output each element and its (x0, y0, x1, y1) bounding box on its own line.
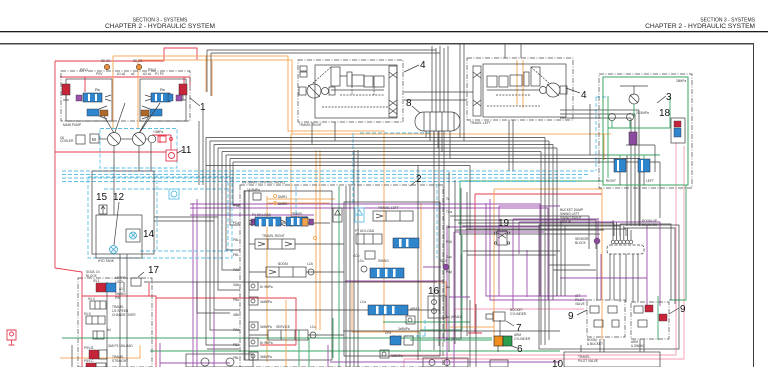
travel right motor (299, 84, 335, 98)
bottom center small block (186, 354, 253, 367)
label 3 (657, 92, 672, 103)
wire black bottom center verticals (470, 300, 581, 367)
svg-text:& SWING: & SWING (631, 344, 645, 348)
solenoid PSV-C (84, 355, 128, 367)
svg-text:SE-9: SE-9 (440, 259, 447, 263)
svg-text:LEFT: LEFT (646, 179, 654, 183)
svg-text:PB2: PB2 (233, 343, 239, 347)
svg-text:14: 14 (143, 229, 155, 240)
svg-text:9: 9 (568, 311, 574, 322)
wire green MCV inlet (460, 181, 603, 235)
svg-text:PBs: PBs (233, 298, 239, 302)
svg-text:BOOM DN: BOOM DN (642, 223, 658, 227)
wire black band horizontals (206, 138, 660, 166)
svg-text:19: 19 (498, 218, 510, 229)
wire black pump to tank drops (114, 110, 218, 221)
svg-text:SV.1: SV.1 (93, 279, 100, 283)
svg-text:4: 4 (420, 60, 426, 71)
wire black remote top horizontals (450, 216, 626, 249)
header rule 1 (0, 31, 768, 32)
valve 11 pilot relief (166, 145, 192, 161)
swash links (104, 103, 160, 133)
svg-text:PSV1: PSV1 (80, 68, 88, 72)
pilot relief pair (609, 111, 649, 121)
svg-text:A4: A4 (107, 328, 111, 332)
check relief right a (398, 316, 415, 331)
travel right brake ports (300, 66, 307, 77)
svg-text:3: 3 (666, 92, 672, 103)
svg-text:6: 6 (517, 344, 523, 355)
svg-text:A1 a2: A1 a2 (117, 72, 126, 76)
svg-text:CPa: CPa (385, 331, 391, 335)
wire orange right edge vertical (494, 189, 602, 340)
wire black MCV inner frames (244, 191, 440, 360)
svg-text:PSV-C: PSV-C (84, 359, 94, 363)
svg-text:PCb: PCb (446, 240, 452, 244)
check relief column 3 (249, 322, 272, 330)
wire cyan pilot to manifold (296, 97, 608, 336)
svg-text:VALVE: VALVE (575, 302, 585, 306)
svg-text:a2: a2 (131, 72, 135, 76)
pump circle P2 (121, 133, 146, 146)
svg-text:MV (MAIN CONTROL VALVE): MV (MAIN CONTROL VALVE) (242, 181, 285, 185)
label 4 left (566, 88, 587, 101)
wire black MCV row links (249, 223, 440, 335)
wire black MCV right bundle (418, 165, 467, 360)
wire black remote inner links (549, 265, 596, 270)
orange DMR labels (273, 194, 276, 197)
svg-text:PBL: PBL (233, 356, 239, 360)
wire red pump supply left (55, 48, 197, 367)
svg-text:15: 15 (96, 192, 108, 203)
bottom small valve box (423, 358, 468, 367)
svg-text:DMR2: DMR2 (278, 202, 287, 206)
travel motor left block (467, 58, 573, 125)
pilot solenoid left (606, 159, 626, 183)
svg-text:COOLER: COOLER (60, 139, 74, 143)
lever lock valve (107, 265, 437, 367)
valve 18 (659, 108, 685, 143)
svg-text:PSV-B: PSV-B (84, 346, 93, 350)
wire pink mid horizontals (455, 309, 584, 336)
sensor block labels (560, 208, 658, 227)
pump circle P1 (108, 133, 121, 146)
pilot valve arm swing 9 (631, 302, 686, 348)
svg-text:ARM 1: ARM 1 (410, 307, 420, 311)
wire purple remote internal (560, 225, 647, 305)
check relief right b (380, 350, 403, 358)
wire black travel block drops (312, 44, 521, 171)
wire pink right pair down (390, 142, 684, 367)
wire purple pilot drops (486, 199, 598, 309)
wire red relief 11 (55, 135, 171, 152)
svg-text:P1 UN LOAD: P1 UN LOAD (252, 213, 272, 217)
svg-text:4: 4 (581, 90, 587, 101)
bucket cylinder 7 (486, 308, 527, 334)
pilot solenoid right (638, 159, 654, 183)
svg-text:MAIN PUMP: MAIN PUMP (63, 123, 81, 127)
svg-text:SE-20: SE-20 (101, 59, 110, 63)
svg-text:26MPa: 26MPa (676, 79, 686, 83)
gear pump P3 (146, 135, 156, 143)
wire green MCV vertical (339, 186, 462, 367)
wire black MCV mid verticals (245, 150, 358, 367)
svg-text:3A5 P2 UNLOAD: 3A5 P2 UNLOAD (108, 344, 133, 348)
svg-text:16: 16 (428, 286, 440, 297)
svg-text:STRAIGHT: STRAIGHT (112, 359, 128, 363)
wire cyan long pilot pair (62, 171, 596, 182)
wire red pump pilot top (60, 77, 190, 92)
header left page (105, 18, 215, 31)
svg-text:BLOCK: BLOCK (575, 241, 587, 245)
label 4 right (404, 60, 426, 72)
spool travel left mcv (373, 206, 413, 221)
travel pilot valve 10 (552, 352, 660, 367)
spool arm2 (385, 331, 413, 345)
box CCb (353, 251, 375, 259)
label 1 (190, 98, 206, 113)
pilot valve boom bucket 9 (568, 294, 625, 346)
svg-text:LOCK: LOCK (115, 280, 125, 284)
wire black tank bottom drops (72, 254, 127, 367)
svg-text:HYD TANK: HYD TANK (98, 259, 115, 263)
svg-text:TRAVEL LEFT: TRAVEL LEFT (470, 121, 491, 125)
pilot filter 14 (126, 229, 155, 242)
svg-text:Rs: Rs (160, 87, 165, 92)
filter shuttle a (333, 208, 342, 222)
valve 16 (428, 286, 446, 318)
svg-text:PT UN LOAD: PT UN LOAD (355, 229, 375, 233)
arm cylinder 6 (490, 333, 531, 367)
port circles row (607, 240, 644, 254)
pump rotary group M (90, 134, 107, 143)
wire orange DMR lines (267, 199, 335, 203)
spool travel straight (286, 212, 314, 226)
svg-text:PSV: PSV (96, 72, 103, 76)
wire red solenoid feed pair (82, 283, 156, 367)
svg-text:11: 11 (181, 145, 192, 156)
svg-text:SWING: SWING (378, 259, 389, 263)
wire orange MCV verticals (267, 134, 421, 362)
svg-text:9: 9 (680, 304, 686, 315)
wire black bottom long horizontal (207, 331, 560, 349)
svg-text:CCb: CCb (353, 254, 360, 258)
remote control assembly box (539, 225, 679, 349)
svg-text:PBL: PBL (233, 253, 239, 257)
solenoid SV1 (93, 279, 123, 292)
travel right spool column (312, 66, 397, 117)
svg-text:PA1: PA1 (233, 328, 239, 332)
svg-text:CHAPTER 2 - HYDRAULIC SYSTEM: CHAPTER 2 - HYDRAULIC SYSTEM (105, 23, 215, 30)
svg-text:PBp: PBp (446, 270, 452, 274)
solenoid SV4 (93, 328, 111, 339)
svg-text:SERVICE: SERVICE (276, 325, 290, 329)
oil cooler box (60, 135, 85, 144)
wire red solenoid loop right (156, 298, 296, 345)
svg-text:10: 10 (552, 359, 564, 367)
svg-text:TRAVEL RIGHT: TRAVEL RIGHT (299, 123, 322, 127)
svg-text:XBb: XBb (233, 313, 239, 317)
valve 19 (494, 218, 509, 245)
regulator spool left (76, 87, 111, 102)
svg-text:17: 17 (148, 265, 160, 276)
sensor block purple (575, 237, 600, 245)
wire cyan pump box (100, 129, 177, 169)
svg-text:Aa (HEAD): Aa (HEAD) (446, 315, 462, 319)
travel left spool column (473, 66, 481, 116)
wire green bottom runs (62, 318, 560, 358)
svg-text:12: 12 (113, 192, 125, 203)
svg-text:& BUCKET: & BUCKET (587, 342, 603, 346)
svg-text:TRAVEL LEFT: TRAVEL LEFT (378, 206, 399, 210)
svg-text:Dr 9MPa: Dr 9MPa (260, 285, 273, 289)
check relief column 1 (249, 282, 273, 290)
svg-text:SV.4: SV.4 (88, 297, 95, 301)
svg-text:SE-23: SE-23 (133, 59, 142, 63)
wire green right down (658, 185, 686, 340)
spool arm1 (360, 300, 420, 315)
wire orange bottom stub (285, 300, 287, 367)
svg-text:16.5MPa: 16.5MPa (247, 188, 260, 192)
spool swing prior (355, 229, 382, 244)
solenoid PSV-B (84, 344, 133, 359)
svg-text:M: M (92, 137, 96, 142)
travel left counterbalance (487, 67, 549, 106)
svg-text:1: 1 (200, 102, 206, 113)
suction strainer 12 (110, 192, 125, 254)
svg-text:8: 8 (406, 98, 412, 109)
spool swing (358, 259, 404, 278)
svg-text:2: 2 (416, 174, 422, 185)
wire orange top pair (113, 56, 611, 332)
pilot pump tee (620, 86, 648, 104)
svg-text:Tb: Tb (446, 225, 450, 229)
svg-text:BOOM: BOOM (278, 262, 288, 266)
servo piston right (141, 106, 162, 119)
wire purple remote feed (519, 218, 660, 306)
svg-text:18: 18 (659, 108, 671, 119)
spool P2 unload (393, 238, 419, 248)
MCV right port labels (446, 197, 462, 341)
spool boom (266, 262, 314, 277)
relief +3MPa (153, 130, 173, 142)
spool travel right (255, 234, 295, 249)
svg-text:SV.5: SV.5 (84, 312, 91, 316)
svg-text:3x5MPa: 3x5MPa (260, 300, 272, 304)
svg-text:CHAPTER 2 - HYDRAULIC SYSTEM: CHAPTER 2 - HYDRAULIC SYSTEM (645, 23, 755, 30)
wire orange bottom left (60, 327, 494, 358)
svg-text:PCa: PCa (233, 221, 239, 225)
relief valve PSV-1 (179, 84, 187, 100)
spool service (268, 325, 316, 340)
travel left motor (540, 83, 568, 97)
svg-text:+3MPa: +3MPa (153, 130, 163, 134)
svg-text:Ba (ROD): Ba (ROD) (446, 337, 460, 341)
wire black swivel top bundle (207, 46, 448, 112)
wire purple MCV right verticals (330, 227, 560, 367)
pressure sensor SE-23 (133, 59, 142, 70)
servo piston left (87, 106, 108, 119)
svg-text:XAb: XAb (233, 283, 239, 287)
pump assembly block P1 (61, 71, 190, 127)
svg-text:LCb: LCb (307, 262, 313, 266)
svg-text:Dr 9MPa: Dr 9MPa (260, 341, 273, 345)
regulator spool right (145, 87, 182, 102)
travel motor right block (298, 60, 403, 127)
solenoid SV2 (88, 292, 126, 309)
check relief column 2 (249, 297, 272, 305)
svg-text:3x5MPa: 3x5MPa (260, 325, 272, 329)
wire green bottom link (299, 330, 492, 367)
wire black remote fan (597, 220, 675, 352)
svg-text:PA2: PA2 (233, 268, 239, 272)
wire black travel link (404, 44, 473, 141)
spool P1 unload (249, 213, 285, 227)
header right page (645, 18, 756, 31)
schematic frame right border (753, 43, 755, 367)
swivel joint 8 (406, 98, 460, 131)
svg-text:LCc: LCc (310, 325, 316, 329)
wire black right column bundle (557, 217, 565, 296)
header rule 2 / schematic frame top (0, 43, 754, 44)
sensor SE-9 purple dot (440, 259, 449, 270)
relief valve PSV-2 (62, 84, 70, 100)
wire purple left verticals (193, 199, 197, 367)
wire orange pump sensors drop (113, 56, 138, 128)
wire purple main pair (190, 204, 548, 300)
svg-text:TRAVEL RIGHT: TRAVEL RIGHT (262, 234, 285, 238)
return filter 15 (96, 192, 108, 214)
svg-text:3x5MPa: 3x5MPa (391, 354, 403, 358)
cyan filter box mid (169, 189, 179, 199)
svg-text:3x5MPa: 3x5MPa (398, 327, 410, 331)
svg-text:PAL: PAL (233, 238, 239, 242)
main relief 16.5MPa (247, 188, 261, 200)
svg-text:A1: A1 (119, 287, 123, 291)
svg-text:3x5MPa: 3x5MPa (260, 355, 272, 359)
svg-text:CHANGE OVER: CHANGE OVER (112, 313, 136, 317)
svg-text:LCa: LCa (360, 300, 366, 304)
svg-text:Rs: Rs (95, 87, 100, 92)
wire red MCV drain vertical (468, 194, 602, 333)
pilot manifold internal green (608, 96, 670, 178)
wire cyan suction box 14 (104, 165, 232, 255)
svg-text:PIN: PIN (115, 296, 121, 300)
wire black right mid mesh (455, 110, 639, 255)
wire cyan tank region box (88, 177, 232, 258)
svg-text:PTa: PTa (234, 204, 240, 208)
svg-text:CYLINDER: CYLINDER (510, 312, 527, 316)
svg-text:DMR1: DMR1 (278, 195, 287, 199)
svg-text:LCs: LCs (358, 259, 364, 263)
hydraulic tank block (92, 171, 154, 263)
wire orange crossfeed to pilot block (603, 134, 605, 160)
wire orange MCV section box (352, 282, 446, 332)
svg-text:Aa: Aa (446, 285, 450, 289)
svg-text:20.5MPa: 20.5MPa (636, 111, 649, 115)
svg-text:PILOT VALVE: PILOT VALVE (578, 359, 598, 363)
wire purple bottom stub (160, 311, 328, 367)
pilot manifold block 3 (599, 74, 692, 188)
check relief column 4 (249, 338, 273, 346)
svg-text:RIGHT: RIGHT (606, 179, 616, 183)
MCV left port labels (233, 204, 240, 360)
left margin relief symbol (7, 330, 16, 345)
wire black swivel below (430, 131, 450, 350)
svg-text:ARM IN: ARM IN (560, 220, 572, 224)
svg-text:TCa: TCa (446, 210, 452, 214)
check relief column 5 (249, 352, 272, 360)
pressure sensor SE-20 (101, 59, 110, 70)
svg-text:A2 a1: A2 a1 (143, 72, 152, 76)
svg-text:Ts: Ts (446, 197, 450, 201)
accumulator purple (629, 132, 637, 145)
travel right counterbalance (331, 67, 384, 90)
filter shuttle b (355, 208, 364, 222)
svg-text:BLOCK: BLOCK (86, 274, 98, 278)
solenoid valve block 17 (78, 270, 152, 367)
solenoid SV3 (84, 305, 136, 324)
label 2 (410, 174, 422, 186)
svg-text:P1 P2: P1 P2 (155, 72, 164, 76)
wire black band right turns (426, 131, 660, 345)
svg-text:CYLINDER: CYLINDER (514, 337, 531, 341)
main control valve block 2 (240, 181, 443, 367)
wire black band left drops (206, 138, 240, 346)
